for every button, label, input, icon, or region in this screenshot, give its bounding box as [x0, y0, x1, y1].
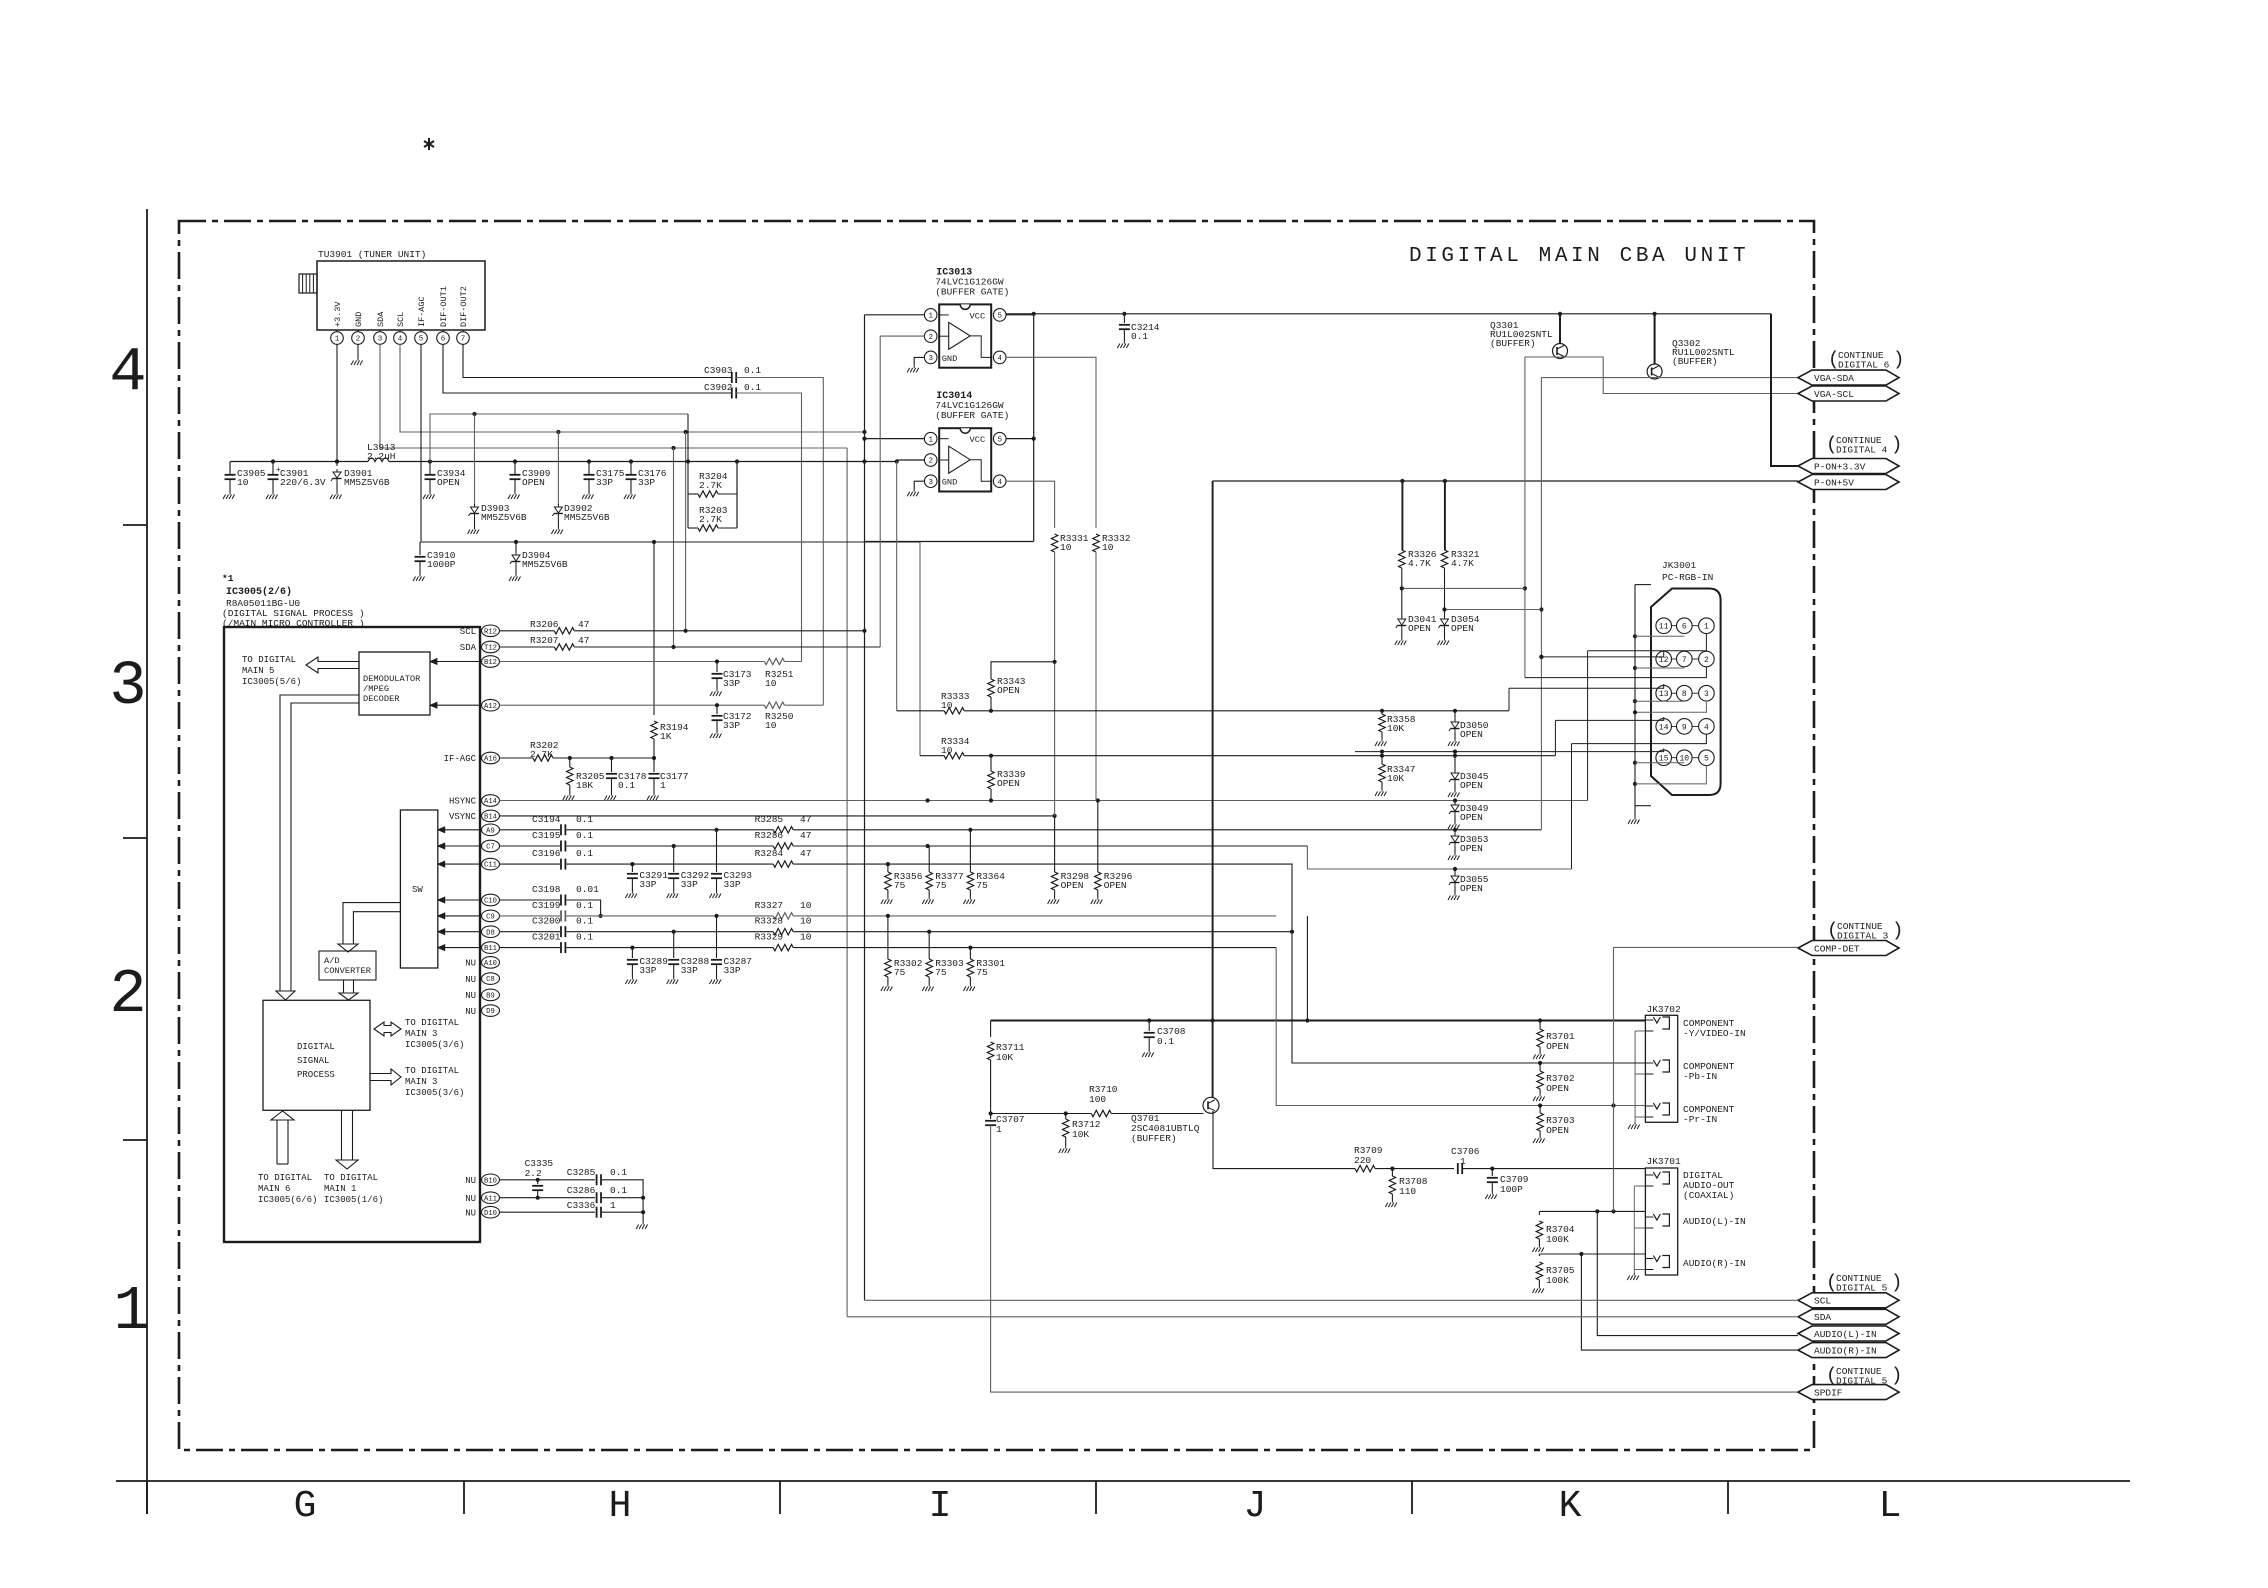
svg-text:33P: 33P [596, 477, 613, 488]
svg-text:OPEN: OPEN [1061, 880, 1084, 891]
svg-text:IF-AGC: IF-AGC [444, 754, 477, 764]
svg-text:GND: GND [354, 312, 364, 327]
svg-text:(BUFFER GATE): (BUFFER GATE) [935, 286, 1009, 297]
svg-text:1000P: 1000P [427, 559, 456, 570]
svg-text:H: H [609, 1485, 632, 1528]
svg-text:5: 5 [997, 313, 1002, 321]
svg-text:A16: A16 [484, 756, 497, 764]
svg-text:6: 6 [441, 336, 446, 344]
svg-text:IC3005(2/6): IC3005(2/6) [226, 586, 292, 598]
svg-text:33P: 33P [639, 879, 656, 890]
svg-text:4: 4 [1704, 723, 1709, 732]
svg-text:TU3901 (TUNER UNIT): TU3901 (TUNER UNIT) [318, 249, 426, 260]
svg-text:1: 1 [335, 336, 340, 344]
svg-text:D8: D8 [486, 929, 495, 937]
svg-text:C8: C8 [486, 976, 495, 984]
svg-text:MAIN 3: MAIN 3 [405, 1077, 437, 1087]
svg-text:33P: 33P [639, 965, 656, 976]
svg-text:1: 1 [928, 436, 933, 444]
svg-text:DIGITAL 6: DIGITAL 6 [1838, 360, 1890, 371]
svg-text:DEMODULATOR: DEMODULATOR [363, 674, 420, 684]
svg-text:SCL: SCL [460, 627, 476, 637]
svg-text:2: 2 [356, 336, 361, 344]
svg-text:4.7K: 4.7K [1451, 558, 1474, 569]
svg-text:10K: 10K [1072, 1129, 1089, 1140]
svg-text:SPDIF: SPDIF [1814, 1388, 1843, 1399]
svg-text:IC3005(6/6): IC3005(6/6) [258, 1195, 317, 1205]
svg-text:SCL: SCL [1814, 1296, 1831, 1307]
svg-text:10: 10 [237, 477, 249, 488]
svg-text:(: ( [1828, 349, 1839, 371]
svg-text:OPEN: OPEN [1104, 880, 1127, 891]
svg-text:0.1: 0.1 [744, 382, 761, 393]
svg-text:A/D: A/D [324, 956, 340, 966]
svg-text:AUDIO(L)-IN: AUDIO(L)-IN [1683, 1216, 1746, 1227]
svg-text:47: 47 [578, 635, 589, 646]
svg-text:A12: A12 [484, 703, 497, 711]
svg-text:JK3001: JK3001 [1662, 560, 1697, 571]
svg-text:B14: B14 [484, 814, 497, 822]
svg-text:GND: GND [942, 354, 958, 364]
svg-text:+: + [276, 466, 281, 475]
svg-text:J: J [1244, 1485, 1267, 1528]
svg-text:AUDIO(R)-IN: AUDIO(R)-IN [1814, 1346, 1877, 1357]
svg-text:NU: NU [465, 1176, 476, 1186]
svg-text:47: 47 [578, 619, 589, 630]
svg-text:CONVERTER: CONVERTER [324, 966, 371, 976]
svg-text:0.1: 0.1 [576, 830, 593, 841]
svg-text:OPEN: OPEN [997, 778, 1020, 789]
svg-text:B12: B12 [484, 659, 497, 667]
svg-text:4: 4 [997, 355, 1002, 363]
svg-text:K: K [1559, 1485, 1582, 1528]
svg-text:5: 5 [419, 336, 424, 344]
svg-text:P-ON+5V: P-ON+5V [1814, 477, 1854, 488]
svg-text:HSYNC: HSYNC [449, 797, 477, 807]
svg-text:IC3005(3/6): IC3005(3/6) [405, 1088, 464, 1098]
svg-text:DIGITAL: DIGITAL [297, 1042, 335, 1052]
svg-text:JK3701: JK3701 [1647, 1156, 1682, 1167]
svg-text:A14: A14 [484, 798, 497, 806]
svg-text:NU: NU [465, 991, 476, 1001]
svg-text:(BUFFER): (BUFFER) [1131, 1133, 1177, 1144]
svg-text:A10: A10 [484, 960, 497, 968]
svg-text:75: 75 [976, 880, 988, 891]
svg-text:C3201: C3201 [532, 932, 561, 943]
svg-text:D10: D10 [484, 1210, 497, 1218]
svg-text:0.1: 0.1 [610, 1185, 627, 1196]
svg-text:SDA: SDA [376, 311, 386, 327]
svg-text:OPEN: OPEN [522, 477, 545, 488]
svg-text:3: 3 [928, 355, 933, 363]
svg-text:(: ( [1826, 434, 1837, 456]
svg-text:75: 75 [894, 880, 906, 891]
svg-text:TO DIGITAL: TO DIGITAL [405, 1018, 459, 1028]
svg-text:-Pr-IN: -Pr-IN [1683, 1114, 1717, 1125]
svg-text:TO DIGITAL: TO DIGITAL [405, 1066, 459, 1076]
svg-text:4: 4 [398, 336, 403, 344]
svg-text:): ) [1891, 1272, 1902, 1294]
svg-text:R3328: R3328 [755, 916, 784, 927]
svg-text:R3284: R3284 [755, 848, 784, 859]
svg-text:MM5Z5V6B: MM5Z5V6B [564, 512, 610, 523]
svg-text:2.7K: 2.7K [699, 514, 722, 525]
svg-text:-Y/VIDEO-IN: -Y/VIDEO-IN [1683, 1028, 1746, 1039]
svg-text:0.1: 0.1 [610, 1167, 627, 1178]
svg-text:NU: NU [465, 1194, 476, 1204]
svg-text:1: 1 [996, 1124, 1002, 1135]
svg-text:DIGITAL MAIN CBA UNIT: DIGITAL MAIN CBA UNIT [1409, 245, 1749, 268]
svg-text:L: L [1879, 1485, 1902, 1528]
svg-text:VCC: VCC [970, 311, 986, 321]
svg-text:GND: GND [942, 478, 958, 488]
svg-text:PC-RGB-IN: PC-RGB-IN [1662, 572, 1713, 583]
svg-text:MM5Z5V6B: MM5Z5V6B [481, 512, 527, 523]
svg-text:VGA-SCL: VGA-SCL [1814, 389, 1854, 400]
svg-text:0.1: 0.1 [1131, 331, 1148, 342]
svg-text:IC3005(1/6): IC3005(1/6) [324, 1195, 383, 1205]
svg-text:OPEN: OPEN [1460, 883, 1483, 894]
svg-text:7: 7 [461, 336, 466, 344]
svg-text:0.1: 0.1 [576, 916, 593, 927]
svg-text:33P: 33P [638, 477, 655, 488]
svg-text:2.2uH: 2.2uH [367, 451, 396, 462]
svg-text:4: 4 [997, 479, 1002, 487]
svg-text:C3200: C3200 [532, 916, 561, 927]
svg-text:): ) [1891, 1365, 1902, 1387]
svg-text:IC3005(3/6): IC3005(3/6) [405, 1040, 464, 1050]
svg-text:R3329: R3329 [755, 932, 784, 943]
svg-text:T12: T12 [484, 645, 497, 653]
svg-text:SW: SW [412, 885, 423, 895]
svg-text:B9: B9 [486, 993, 495, 1001]
svg-text:1: 1 [928, 313, 933, 321]
svg-text:11: 11 [1659, 623, 1669, 632]
svg-text:0.1: 0.1 [576, 814, 593, 825]
svg-text:9: 9 [1682, 723, 1687, 732]
svg-text:JK3702: JK3702 [1647, 1004, 1682, 1015]
svg-text:(: ( [1826, 1272, 1837, 1294]
svg-text:): ) [1891, 434, 1902, 456]
svg-text:220: 220 [1354, 1155, 1371, 1166]
svg-text:I: I [929, 1485, 952, 1528]
svg-text:10K: 10K [996, 1052, 1013, 1063]
svg-text:75: 75 [935, 967, 947, 978]
svg-text:NU: NU [465, 1208, 476, 1218]
svg-text:TO DIGITAL: TO DIGITAL [242, 655, 296, 665]
svg-text:VGA-SDA: VGA-SDA [1814, 373, 1854, 384]
svg-text:A9: A9 [486, 827, 495, 835]
svg-text:10: 10 [1102, 542, 1114, 553]
svg-text:(BUFFER): (BUFFER) [1490, 338, 1536, 349]
svg-text:2.7K: 2.7K [699, 480, 722, 491]
svg-text:10: 10 [800, 916, 812, 927]
svg-text:R3285: R3285 [755, 814, 784, 825]
svg-text:10: 10 [765, 720, 777, 731]
svg-text:MAIN 5: MAIN 5 [242, 666, 274, 676]
svg-text:G: G [294, 1485, 317, 1528]
svg-text:10: 10 [800, 932, 812, 943]
svg-text:AUDIO(R)-IN: AUDIO(R)-IN [1683, 1258, 1746, 1269]
svg-text:C3195: C3195 [532, 830, 561, 841]
svg-text:2: 2 [928, 334, 933, 342]
svg-text:R3207: R3207 [530, 635, 559, 646]
svg-text:100P: 100P [1500, 1184, 1523, 1195]
svg-text:33P: 33P [723, 678, 740, 689]
svg-text:75: 75 [976, 967, 988, 978]
svg-text:C9: C9 [486, 914, 495, 922]
svg-text:18K: 18K [576, 780, 593, 791]
svg-text:MM5Z5V6B: MM5Z5V6B [344, 477, 390, 488]
svg-text:33P: 33P [681, 879, 698, 890]
svg-text:R3286: R3286 [755, 830, 784, 841]
svg-text:47: 47 [800, 814, 811, 825]
svg-text:1K: 1K [660, 731, 672, 742]
svg-text:2: 2 [928, 458, 933, 466]
svg-text:75: 75 [894, 967, 906, 978]
svg-text:OPEN: OPEN [437, 477, 460, 488]
svg-text:(: ( [1827, 920, 1838, 942]
svg-text:R12: R12 [484, 628, 497, 636]
svg-text:OPEN: OPEN [1451, 623, 1474, 634]
svg-text:220/6.3V: 220/6.3V [280, 477, 326, 488]
svg-text:(COAXIAL): (COAXIAL) [1683, 1190, 1734, 1201]
svg-text:-Pb-IN: -Pb-IN [1683, 1071, 1717, 1082]
svg-text:33P: 33P [724, 879, 741, 890]
svg-text:TO DIGITAL: TO DIGITAL [258, 1173, 312, 1183]
svg-text:IC3005(5/6): IC3005(5/6) [242, 677, 301, 687]
svg-text:(BUFFER GATE): (BUFFER GATE) [935, 410, 1009, 421]
svg-text:/MPEG: /MPEG [363, 684, 389, 694]
svg-text:10: 10 [765, 678, 777, 689]
svg-text:10K: 10K [1387, 773, 1404, 784]
svg-text:33P: 33P [723, 720, 740, 731]
svg-text:DIF-OUT2: DIF-OUT2 [459, 286, 469, 327]
svg-text:R3206: R3206 [530, 619, 559, 630]
svg-text:110: 110 [1399, 1186, 1416, 1197]
svg-text:TO DIGITAL: TO DIGITAL [324, 1173, 378, 1183]
svg-text:13: 13 [1659, 690, 1669, 699]
svg-text:NU: NU [465, 975, 476, 985]
svg-text:14: 14 [1659, 723, 1669, 732]
svg-text:OPEN: OPEN [1460, 843, 1483, 854]
svg-text:47: 47 [800, 830, 811, 841]
svg-text:(BUFFER): (BUFFER) [1672, 356, 1718, 367]
svg-text:10: 10 [941, 745, 953, 756]
svg-text:P-ON+3.3V: P-ON+3.3V [1814, 461, 1866, 472]
svg-text:OPEN: OPEN [1460, 729, 1483, 740]
svg-text:MAIN 3: MAIN 3 [405, 1029, 437, 1039]
svg-text:10K: 10K [1387, 723, 1404, 734]
svg-text:10: 10 [800, 900, 812, 911]
svg-text:4: 4 [109, 337, 146, 408]
svg-text:10: 10 [1060, 542, 1072, 553]
svg-text:D9: D9 [486, 1008, 495, 1016]
svg-text:DECODER: DECODER [363, 694, 400, 704]
svg-text:SIGNAL: SIGNAL [297, 1056, 329, 1066]
svg-text:1: 1 [610, 1200, 616, 1211]
svg-text:8: 8 [1682, 690, 1687, 699]
svg-text:3: 3 [378, 336, 383, 344]
svg-text:2: 2 [1704, 656, 1709, 665]
svg-text:100: 100 [1089, 1094, 1106, 1105]
svg-text:OPEN: OPEN [997, 685, 1020, 696]
svg-text:OPEN: OPEN [1546, 1125, 1569, 1136]
svg-text:IF-AGC: IF-AGC [417, 296, 427, 327]
svg-text:C3198: C3198 [532, 884, 561, 895]
svg-text:*1: *1 [222, 573, 234, 584]
svg-text:VCC: VCC [970, 435, 986, 445]
svg-text:A11: A11 [484, 1195, 497, 1203]
svg-text:): ) [1892, 920, 1903, 942]
svg-text:47: 47 [800, 848, 811, 859]
svg-text:DIF-OUT1: DIF-OUT1 [439, 286, 449, 327]
svg-text:0.01: 0.01 [576, 884, 599, 895]
svg-text:DIGITAL 4: DIGITAL 4 [1836, 445, 1888, 456]
svg-text:C3902: C3902 [704, 382, 733, 393]
svg-text:3: 3 [928, 479, 933, 487]
svg-text:0.1: 0.1 [618, 780, 635, 791]
svg-text:0.1: 0.1 [576, 932, 593, 943]
svg-text:MM5Z5V6B: MM5Z5V6B [522, 559, 568, 570]
svg-text:3: 3 [109, 651, 146, 722]
svg-text:100K: 100K [1546, 1234, 1569, 1245]
svg-text:OPEN: OPEN [1460, 780, 1483, 791]
svg-text:5: 5 [1704, 755, 1709, 764]
svg-text:C3194: C3194 [532, 814, 561, 825]
svg-text:COMP-DET: COMP-DET [1814, 943, 1860, 954]
svg-text:C10: C10 [484, 898, 497, 906]
svg-text:33P: 33P [681, 965, 698, 976]
svg-text:2: 2 [109, 959, 146, 1030]
svg-text:C11: C11 [484, 862, 497, 870]
svg-text:3: 3 [1704, 690, 1709, 699]
svg-text:1: 1 [113, 1276, 150, 1347]
svg-text:SDA: SDA [1814, 1312, 1831, 1323]
svg-text:1: 1 [1704, 623, 1709, 632]
svg-text:100K: 100K [1546, 1275, 1569, 1286]
svg-text:2.7K: 2.7K [530, 749, 553, 760]
svg-text:OPEN: OPEN [1546, 1041, 1569, 1052]
svg-text:PROCESS: PROCESS [297, 1070, 335, 1080]
svg-text:C3285: C3285 [567, 1167, 596, 1178]
svg-text:0.1: 0.1 [576, 848, 593, 859]
svg-text:R3327: R3327 [755, 900, 784, 911]
svg-text:SCL: SCL [396, 312, 406, 327]
svg-text:): ) [1893, 349, 1904, 371]
svg-text:OPEN: OPEN [1408, 623, 1431, 634]
svg-text:AUDIO(L)-IN: AUDIO(L)-IN [1814, 1329, 1877, 1340]
svg-text:OPEN: OPEN [1546, 1083, 1569, 1094]
svg-text:C3286: C3286 [567, 1185, 596, 1196]
svg-text:MAIN 6: MAIN 6 [258, 1184, 290, 1194]
svg-text:10: 10 [941, 700, 953, 711]
svg-text:7: 7 [1682, 656, 1687, 665]
svg-text:(: ( [1826, 1365, 1837, 1387]
svg-text:DIGITAL 5: DIGITAL 5 [1836, 1283, 1888, 1294]
svg-text:33P: 33P [724, 965, 741, 976]
svg-text:C3336: C3336 [567, 1200, 596, 1211]
svg-text:0.1: 0.1 [744, 365, 761, 376]
svg-text:+3.3V: +3.3V [333, 301, 343, 327]
svg-text:MAIN 1: MAIN 1 [324, 1184, 356, 1194]
svg-text:NU: NU [465, 959, 476, 969]
svg-text:VSYNC: VSYNC [449, 812, 477, 822]
svg-text:1: 1 [660, 780, 666, 791]
svg-text:75: 75 [935, 880, 947, 891]
svg-text:SDA: SDA [460, 643, 477, 653]
svg-text:C3903: C3903 [704, 365, 733, 376]
svg-text:OPEN: OPEN [1460, 812, 1483, 823]
svg-text:0.1: 0.1 [576, 900, 593, 911]
svg-text:4.7K: 4.7K [1408, 558, 1431, 569]
svg-text:B11: B11 [484, 945, 497, 953]
svg-text:B10: B10 [484, 1177, 497, 1185]
svg-text:C3199: C3199 [532, 900, 561, 911]
svg-text:2.2: 2.2 [525, 1168, 542, 1179]
svg-text:NU: NU [465, 1007, 476, 1017]
svg-text:C7: C7 [486, 844, 495, 852]
svg-text:5: 5 [997, 436, 1002, 444]
svg-text:6: 6 [1682, 623, 1687, 632]
svg-text:0.1: 0.1 [1157, 1036, 1174, 1047]
svg-text:C3196: C3196 [532, 848, 561, 859]
svg-text:1: 1 [1460, 1156, 1466, 1167]
